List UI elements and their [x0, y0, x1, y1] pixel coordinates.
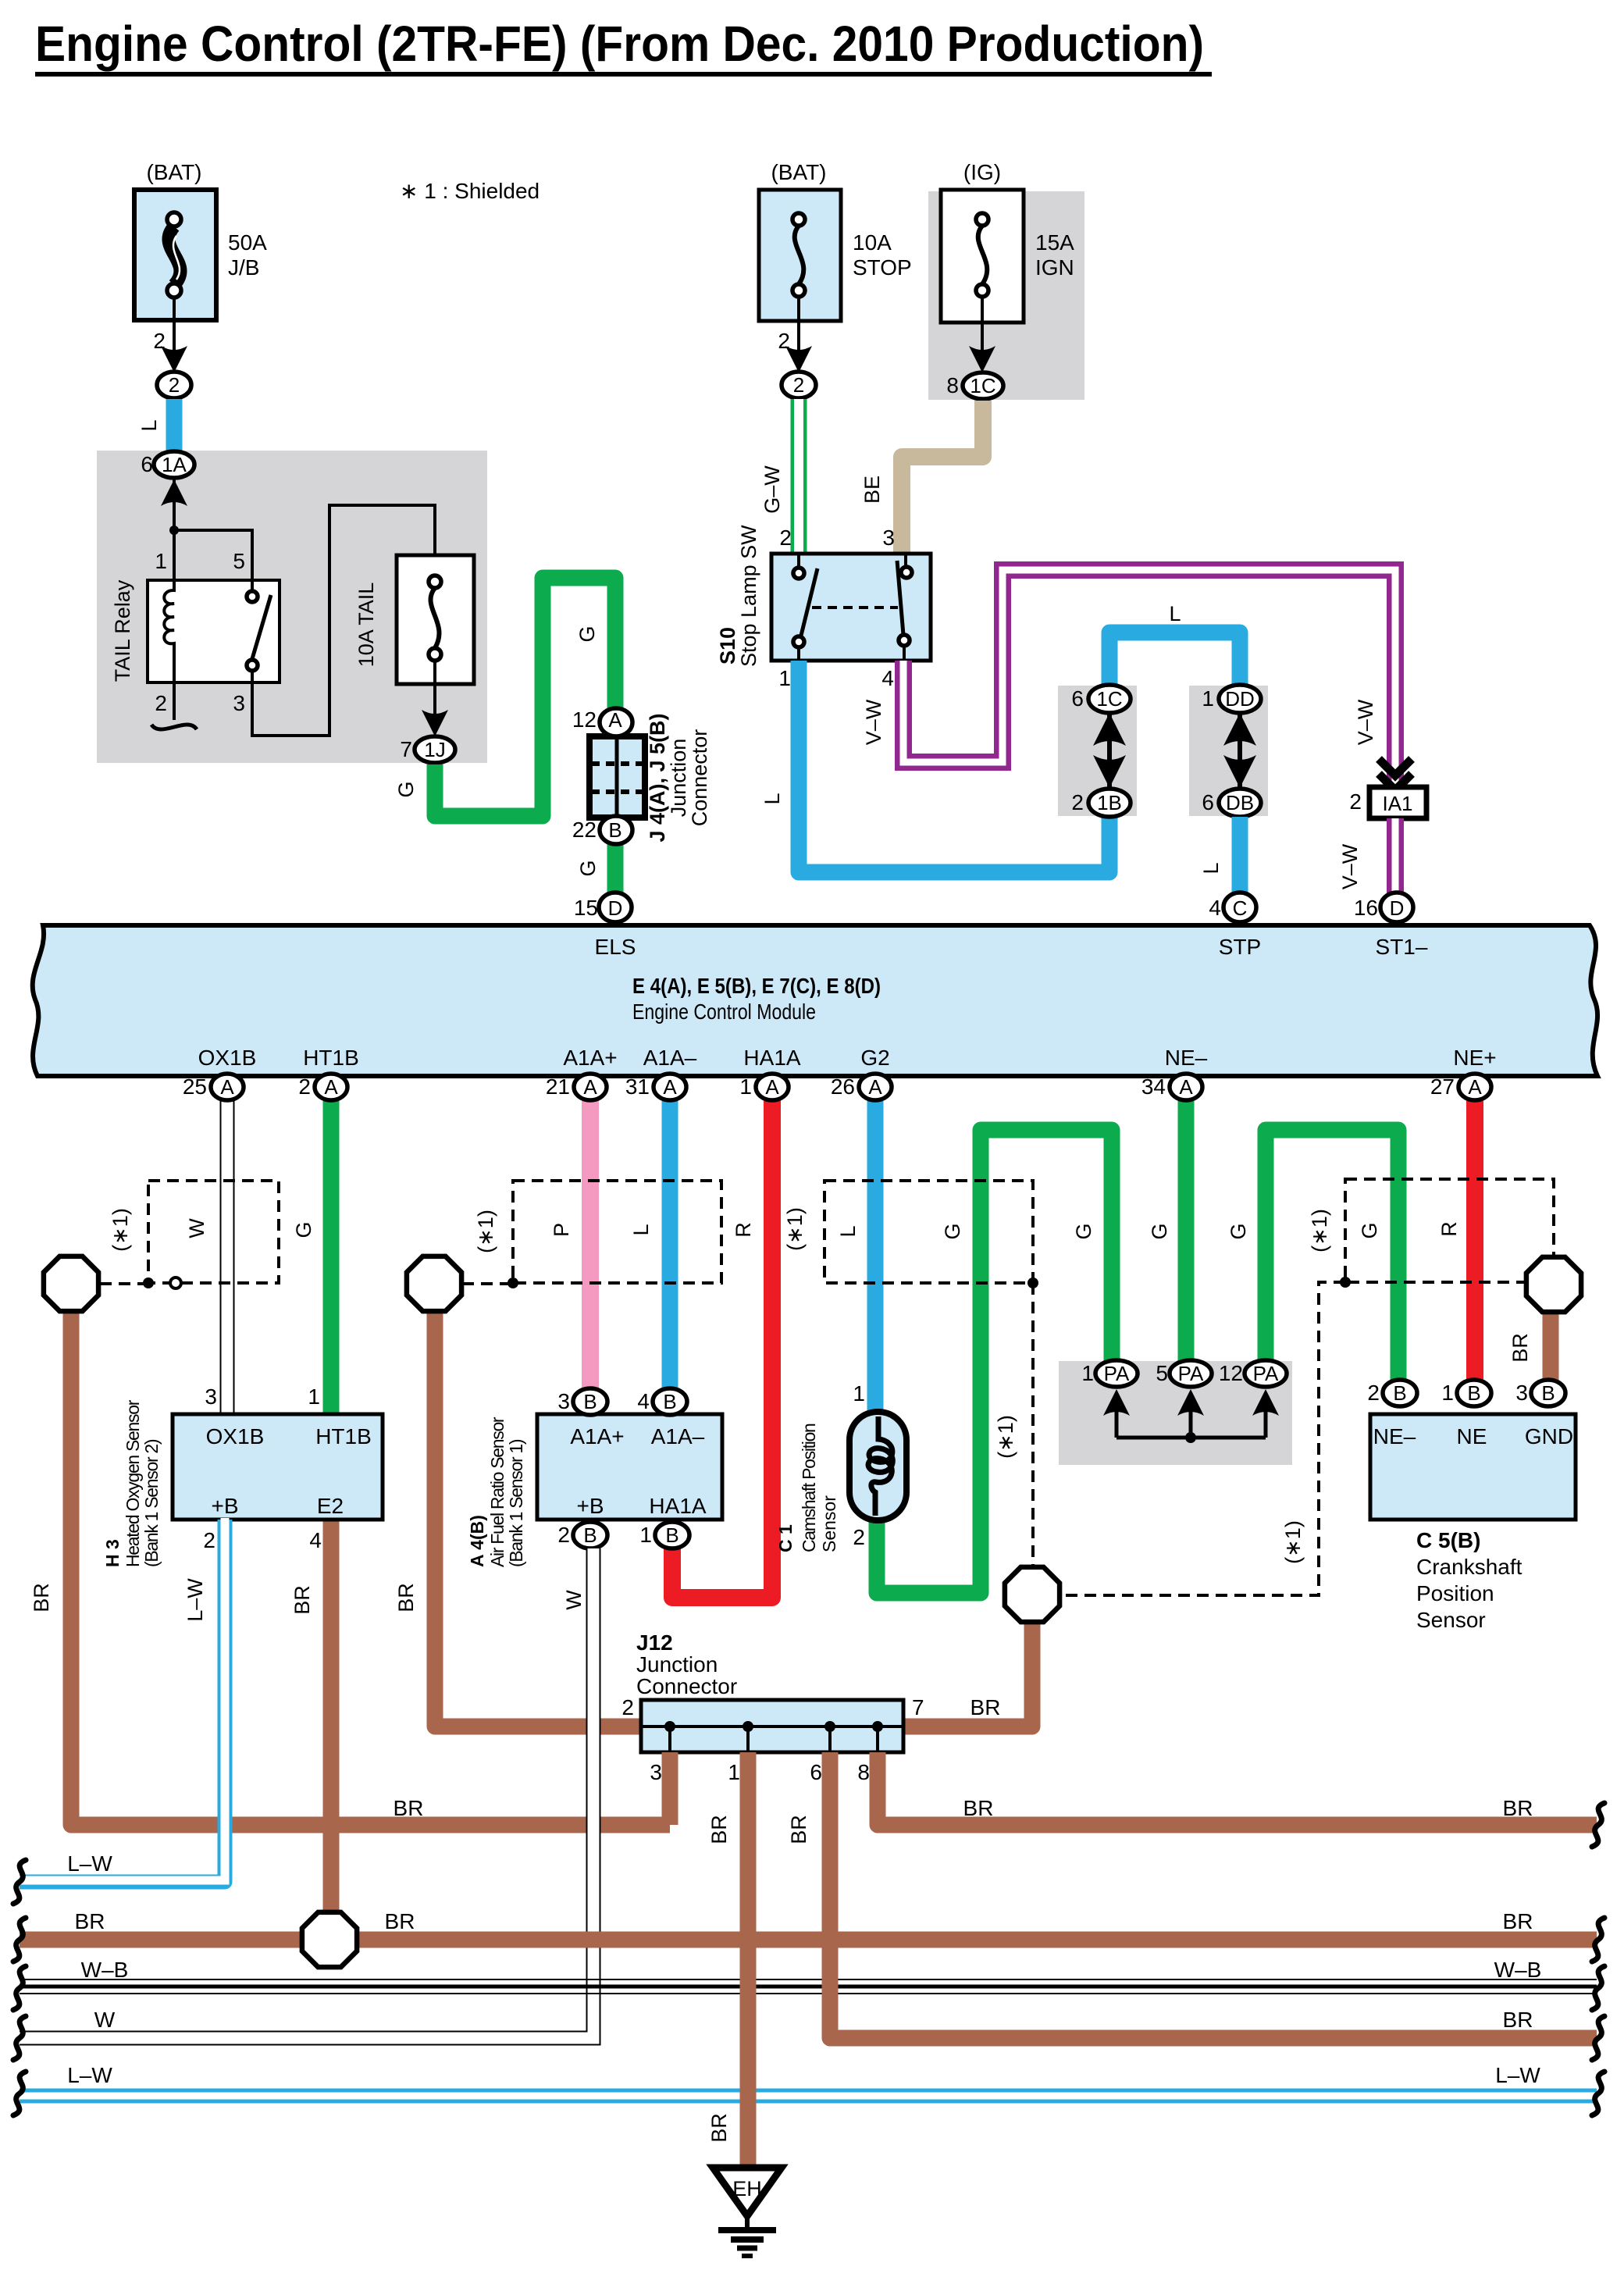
svg-text:C: C [1233, 896, 1248, 920]
svg-text:BR: BR [75, 1909, 105, 1933]
svg-text:PA: PA [1253, 1362, 1279, 1385]
svg-text:A 4(B): A 4(B) [467, 1515, 487, 1567]
svg-text:EH: EH [732, 2177, 762, 2200]
svg-text:BR: BR [707, 1815, 731, 1844]
svg-text:V–W: V–W [1338, 843, 1362, 889]
svg-text:A1A–: A1A– [651, 1424, 705, 1449]
svg-text:C 1: C 1 [775, 1524, 796, 1552]
svg-text:G: G [575, 625, 599, 642]
svg-text:PA: PA [1104, 1362, 1130, 1385]
svg-text:R: R [1437, 1221, 1461, 1237]
svg-text:A: A [608, 708, 622, 732]
svg-text:B: B [583, 1390, 597, 1413]
svg-text:L–W: L–W [67, 1851, 112, 1876]
svg-text:2: 2 [779, 526, 792, 550]
svg-text:4: 4 [881, 666, 894, 690]
svg-text:Crankshaft: Crankshaft [1416, 1555, 1522, 1579]
svg-text:L: L [1199, 862, 1223, 874]
svg-text:STOP: STOP [853, 255, 912, 280]
svg-text:S10: S10 [716, 627, 739, 665]
svg-text:1: 1 [639, 1523, 652, 1547]
svg-text:HA1A: HA1A [649, 1494, 706, 1518]
svg-text:B: B [1467, 1381, 1480, 1405]
svg-text:(∗1): (∗1) [474, 1210, 497, 1253]
svg-text:A: A [324, 1075, 338, 1099]
svg-text:3: 3 [233, 691, 245, 715]
svg-text:ST1–: ST1– [1376, 935, 1428, 959]
svg-text:Camshaft Position: Camshaft Position [799, 1424, 819, 1552]
svg-text:Position: Position [1416, 1581, 1494, 1605]
svg-text:W: W [94, 2008, 116, 2032]
svg-text:6: 6 [1202, 790, 1214, 814]
svg-text:2: 2 [153, 329, 166, 353]
svg-text:TAIL Relay: TAIL Relay [111, 579, 134, 682]
svg-text:1: 1 [155, 549, 167, 573]
svg-text:5: 5 [1156, 1361, 1168, 1385]
svg-text:2: 2 [155, 691, 167, 715]
svg-text:10A: 10A [853, 230, 892, 255]
svg-text:(Bank 1 Sensor 2): (Bank 1 Sensor 2) [141, 1439, 162, 1567]
svg-text:L: L [137, 419, 161, 431]
svg-text:34: 34 [1141, 1074, 1166, 1099]
svg-text:1: 1 [778, 666, 791, 690]
svg-text:NE–: NE– [1373, 1424, 1416, 1449]
svg-text:Engine Control Module: Engine Control Module [632, 1000, 816, 1024]
svg-text:BR: BR [1503, 2008, 1533, 2032]
svg-text:4: 4 [637, 1389, 650, 1413]
svg-text:2: 2 [621, 1695, 634, 1719]
svg-text:G: G [1148, 1223, 1171, 1239]
svg-text:12: 12 [572, 707, 597, 732]
svg-text:W: W [185, 1218, 208, 1238]
svg-text:DB: DB [1226, 791, 1254, 814]
svg-text:22: 22 [572, 818, 597, 842]
svg-text:(∗1): (∗1) [1308, 1209, 1331, 1253]
svg-text:BR: BR [385, 1909, 415, 1933]
svg-text:BR: BR [394, 1583, 418, 1612]
svg-text:(BAT): (BAT) [771, 160, 826, 184]
svg-text:21: 21 [546, 1074, 570, 1099]
svg-text:A1A+: A1A+ [563, 1046, 617, 1070]
svg-text:(Bank 1 Sensor 1): (Bank 1 Sensor 1) [506, 1439, 526, 1567]
svg-text:G–W: G–W [760, 465, 784, 514]
svg-text:3: 3 [205, 1384, 217, 1409]
svg-text:IGN: IGN [1035, 255, 1074, 280]
svg-text:NE: NE [1457, 1424, 1487, 1449]
svg-text:A: A [765, 1075, 779, 1099]
svg-text:1: 1 [853, 1381, 865, 1406]
svg-text:Sensor: Sensor [1416, 1608, 1486, 1632]
svg-text:G: G [576, 860, 600, 876]
svg-text:R: R [732, 1222, 755, 1238]
svg-text:1: 1 [1081, 1361, 1094, 1385]
svg-text:50A: 50A [228, 230, 267, 255]
svg-text:B: B [1393, 1381, 1406, 1405]
svg-text:BE: BE [860, 476, 884, 504]
svg-text:3: 3 [557, 1389, 570, 1413]
svg-text:BR: BR [1503, 1909, 1533, 1933]
svg-text:3: 3 [650, 1760, 662, 1784]
svg-text:6: 6 [1071, 686, 1084, 711]
svg-text:2: 2 [203, 1528, 215, 1552]
svg-text:2: 2 [1367, 1381, 1380, 1405]
svg-text:BR: BR [963, 1796, 994, 1820]
svg-text:+B: +B [211, 1494, 238, 1518]
svg-text:B: B [665, 1523, 678, 1547]
svg-text:1A: 1A [162, 453, 187, 476]
svg-text:2: 2 [853, 1525, 865, 1549]
svg-text:10A TAIL: 10A TAIL [354, 583, 378, 668]
svg-text:G: G [1358, 1222, 1381, 1238]
svg-text:V–W: V–W [862, 699, 885, 745]
svg-text:6: 6 [810, 1760, 822, 1784]
svg-text:W–B: W–B [1494, 1958, 1542, 1982]
svg-text:A: A [1179, 1075, 1193, 1099]
svg-text:W–B: W–B [81, 1958, 129, 1982]
svg-text:G: G [941, 1223, 964, 1239]
svg-text:7: 7 [400, 737, 412, 761]
svg-text:Stop Lamp SW: Stop Lamp SW [737, 525, 760, 667]
svg-text:B: B [1541, 1381, 1555, 1405]
svg-text:Junction: Junction [636, 1652, 718, 1677]
svg-text:1C: 1C [970, 374, 995, 397]
svg-text:2: 2 [557, 1523, 570, 1547]
svg-text:+B: +B [576, 1494, 604, 1518]
svg-text:BR: BR [30, 1583, 53, 1612]
svg-text:A: A [220, 1075, 234, 1099]
svg-text:NE–: NE– [1165, 1046, 1208, 1070]
svg-text:1: 1 [308, 1384, 320, 1409]
svg-text:16: 16 [1354, 896, 1378, 920]
svg-text:BR: BR [787, 1815, 810, 1844]
svg-text:5: 5 [233, 549, 245, 573]
svg-text:P: P [550, 1223, 573, 1237]
svg-text:1B: 1B [1097, 791, 1122, 814]
svg-text:DD: DD [1225, 687, 1255, 711]
svg-text:BR: BR [707, 2113, 731, 2143]
svg-text:L: L [760, 793, 784, 804]
svg-text:2: 2 [298, 1074, 311, 1099]
svg-text:Engine Control (2TR-FE) (From: Engine Control (2TR-FE) (From Dec. 2010 … [35, 16, 1204, 72]
svg-text:26: 26 [831, 1074, 855, 1099]
svg-text:(∗1): (∗1) [109, 1208, 132, 1252]
svg-text:Connector: Connector [636, 1674, 737, 1698]
svg-text:Sensor: Sensor [819, 1495, 839, 1552]
svg-text:STP: STP [1219, 935, 1261, 959]
svg-text:12: 12 [1219, 1361, 1243, 1385]
svg-text:(IG): (IG) [963, 160, 1001, 184]
svg-text:B: B [608, 818, 621, 842]
svg-text:(∗1): (∗1) [783, 1207, 807, 1251]
svg-text:L–W: L–W [67, 2063, 112, 2087]
svg-text:H 3: H 3 [102, 1539, 123, 1567]
svg-text:1: 1 [739, 1074, 752, 1099]
svg-text:3: 3 [882, 526, 895, 550]
svg-text:L–W: L–W [183, 1578, 207, 1622]
svg-text:J/B: J/B [228, 255, 259, 280]
svg-text:A: A [1468, 1075, 1482, 1099]
svg-text:4: 4 [1209, 896, 1221, 920]
svg-text:G: G [292, 1221, 315, 1238]
svg-text:NE+: NE+ [1453, 1046, 1496, 1070]
svg-text:J12: J12 [636, 1630, 673, 1655]
svg-text:15: 15 [574, 896, 598, 920]
svg-text:E 4(A), E 5(B), E 7(C), E 8(D): E 4(A), E 5(B), E 7(C), E 8(D) [632, 974, 881, 998]
svg-text:27: 27 [1430, 1074, 1455, 1099]
svg-text:8: 8 [857, 1760, 870, 1784]
svg-text:L–W: L–W [1495, 2063, 1540, 2087]
svg-text:2: 2 [778, 329, 790, 353]
svg-text:BR: BR [1503, 1796, 1533, 1820]
svg-text:7: 7 [912, 1695, 924, 1719]
svg-text:OX1B: OX1B [206, 1424, 265, 1449]
svg-text:(∗1): (∗1) [1281, 1520, 1305, 1564]
svg-text:A: A [583, 1075, 597, 1099]
svg-text:2: 2 [169, 373, 180, 397]
svg-text:G2: G2 [860, 1046, 889, 1070]
svg-text:J 4(A), J 5(B): J 4(A), J 5(B) [646, 713, 669, 842]
svg-text:Junction: Junction [667, 739, 690, 818]
svg-text:A1A–: A1A– [643, 1046, 697, 1070]
svg-text:31: 31 [625, 1074, 650, 1099]
svg-text:HT1B: HT1B [315, 1424, 372, 1449]
svg-text:BR: BR [394, 1796, 424, 1820]
svg-text:L: L [629, 1224, 653, 1235]
svg-text:HA1A: HA1A [743, 1046, 800, 1070]
svg-text:V–W: V–W [1354, 699, 1377, 745]
svg-text:(BAT): (BAT) [146, 160, 201, 184]
svg-text:A: A [663, 1075, 677, 1099]
svg-text:25: 25 [183, 1074, 207, 1099]
svg-text:(∗1): (∗1) [994, 1415, 1017, 1459]
svg-text:1C: 1C [1096, 687, 1122, 711]
svg-text:Heated Oxygen Sensor: Heated Oxygen Sensor [123, 1399, 143, 1567]
svg-text:IA1: IA1 [1382, 792, 1412, 815]
svg-text:D: D [1390, 896, 1405, 920]
svg-text:A1A+: A1A+ [570, 1424, 624, 1449]
svg-text:HT1B: HT1B [303, 1046, 359, 1070]
svg-text:PA: PA [1178, 1362, 1204, 1385]
svg-text:8: 8 [946, 373, 959, 397]
svg-text:L: L [1169, 602, 1181, 625]
svg-text:C 5(B): C 5(B) [1416, 1528, 1480, 1552]
svg-text:W: W [562, 1590, 586, 1610]
svg-text:Air Fuel Ratio Sensor: Air Fuel Ratio Sensor [487, 1416, 507, 1567]
svg-text:G: G [1227, 1223, 1250, 1239]
svg-text:Connector: Connector [688, 729, 711, 827]
svg-text:1J: 1J [424, 738, 445, 761]
svg-text:BR: BR [290, 1585, 314, 1615]
svg-text:6: 6 [141, 452, 153, 476]
svg-text:ELS: ELS [595, 935, 636, 959]
svg-text:D: D [608, 896, 623, 920]
svg-text:3: 3 [1515, 1381, 1528, 1405]
svg-text:1: 1 [1202, 686, 1214, 711]
svg-text:GND: GND [1525, 1424, 1573, 1449]
svg-text:E2: E2 [317, 1494, 344, 1518]
svg-text:B: B [663, 1390, 676, 1413]
svg-text:2: 2 [1349, 789, 1362, 814]
svg-text:BR: BR [970, 1695, 1001, 1719]
svg-text:1: 1 [728, 1760, 740, 1784]
svg-text:BR: BR [1508, 1333, 1532, 1363]
svg-text:2: 2 [1071, 790, 1084, 814]
svg-text:1: 1 [1441, 1381, 1454, 1405]
svg-text:2: 2 [793, 373, 804, 397]
svg-text:A: A [868, 1075, 882, 1099]
svg-text:G: G [1072, 1223, 1095, 1239]
svg-text:G: G [394, 781, 418, 797]
svg-text:4: 4 [309, 1528, 322, 1552]
svg-text:OX1B: OX1B [198, 1046, 257, 1070]
svg-text:15A: 15A [1035, 230, 1074, 255]
svg-text:L: L [836, 1225, 860, 1237]
svg-text:B: B [583, 1523, 597, 1547]
svg-text:∗ 1 : Shielded: ∗ 1 : Shielded [400, 179, 540, 203]
